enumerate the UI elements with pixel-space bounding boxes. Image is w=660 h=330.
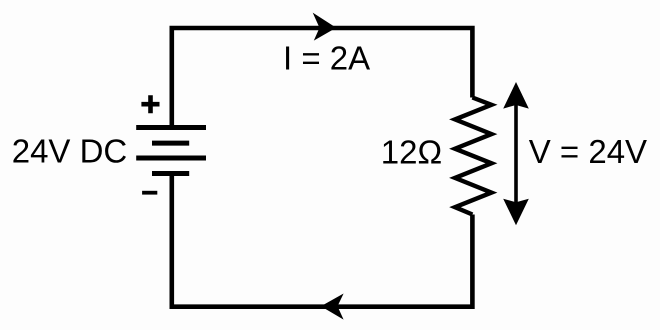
- svg-text:12Ω: 12Ω: [381, 133, 442, 170]
- svg-text:I = 2A: I = 2A: [283, 40, 370, 77]
- current arrowhead top (pointing right): [313, 13, 337, 41]
- battery V1 plate 4 short (-): [152, 171, 189, 176]
- battery V1 plate 3 long: [136, 156, 206, 161]
- voltage arrow shaft (double-headed): [514, 100, 518, 208]
- current arrowhead bottom (pointing left): [321, 294, 344, 320]
- resistor R1 zigzag 12 ohm: [455, 98, 492, 215]
- wire bottom (resistor bottom, down, bottom horizontal, up to battery -): [172, 174, 473, 307]
- svg-text:V = 24V: V = 24V: [529, 133, 647, 170]
- wire top and corners (left vertical to battery +, top horizontal, right vertical to resistor): [172, 28, 473, 125]
- battery plus sign: [141, 95, 159, 113]
- svg-text:24V DC: 24V DC: [12, 132, 128, 169]
- voltage arrowhead down: [503, 199, 529, 226]
- voltage arrowhead up: [503, 82, 529, 109]
- battery minus sign: [142, 191, 157, 195]
- battery V1 plate 1 long (+): [136, 125, 206, 130]
- battery V1 plate 2 short: [152, 141, 189, 146]
